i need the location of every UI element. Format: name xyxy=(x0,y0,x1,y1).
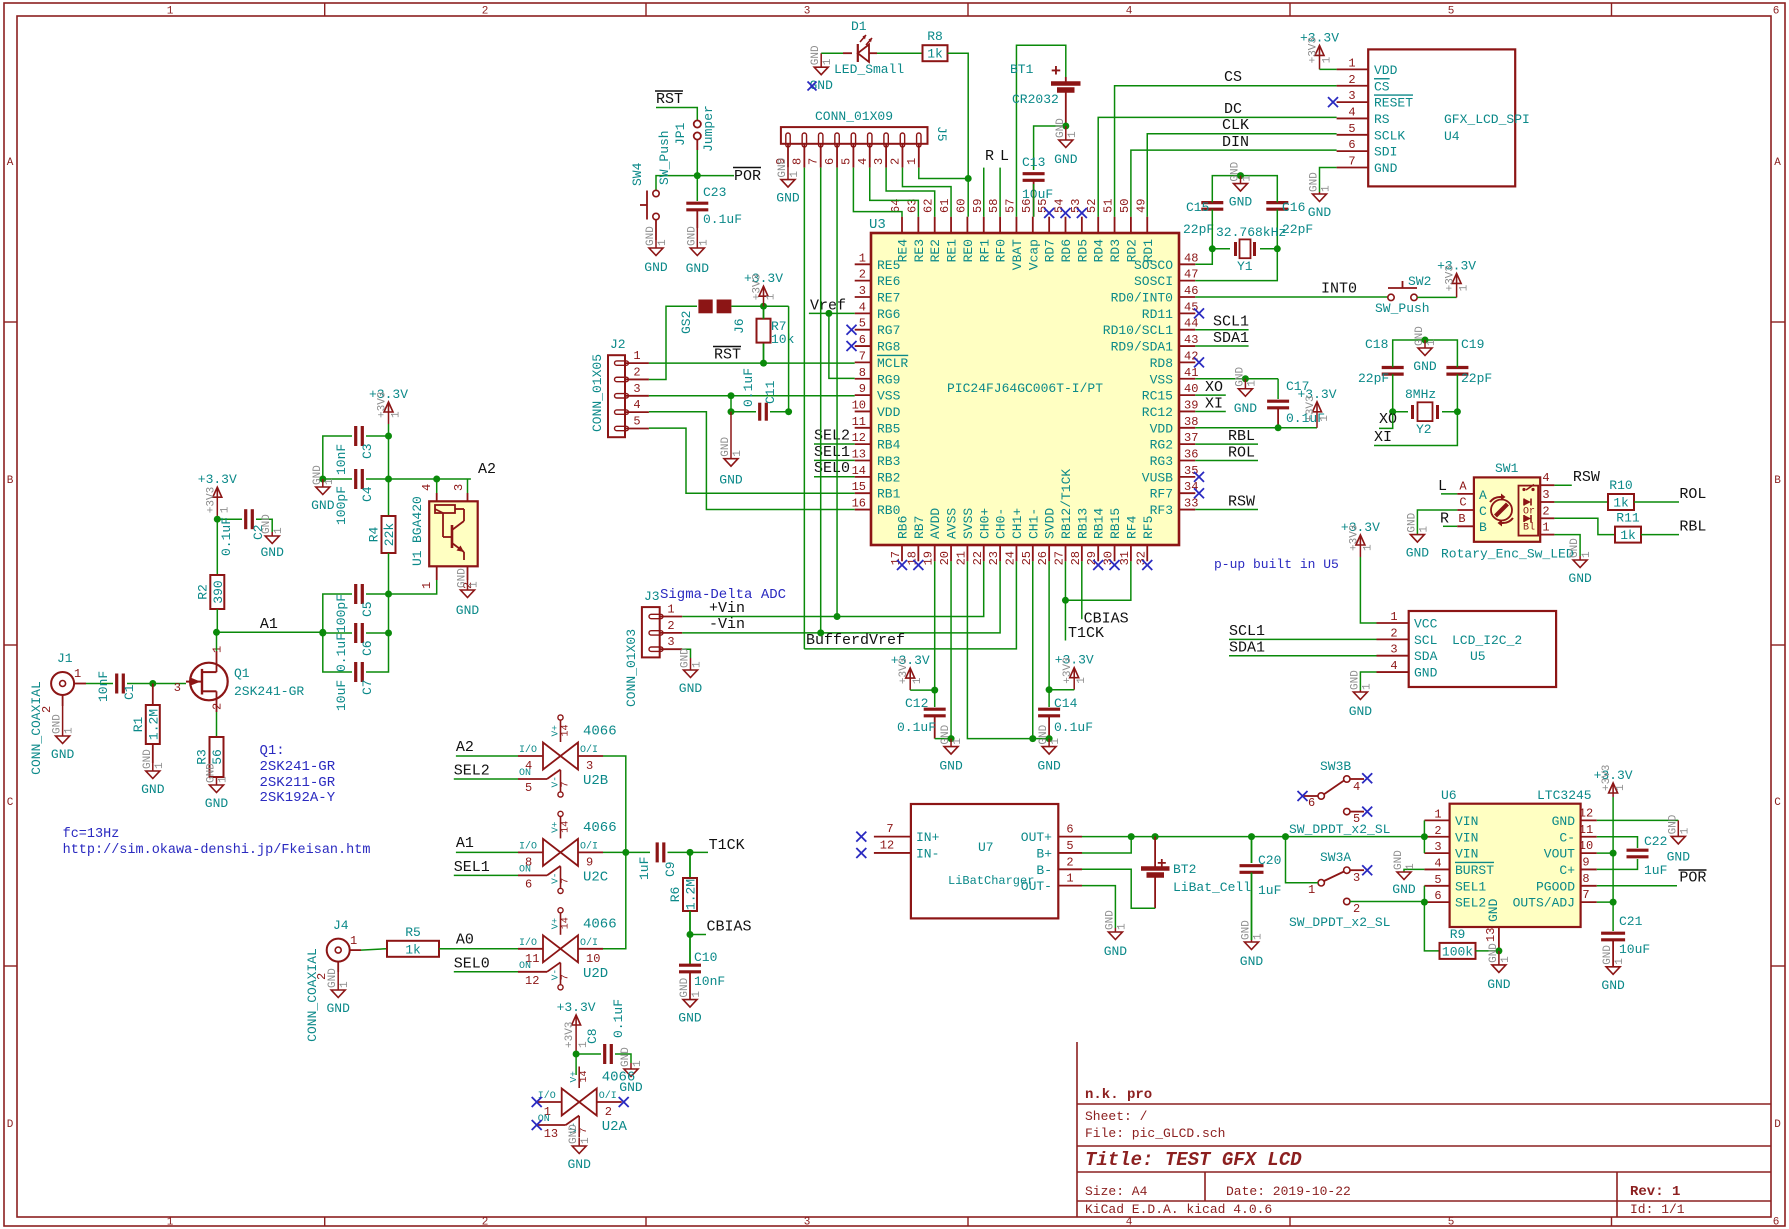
crystal Y2 8MHz xyxy=(1393,374,1458,437)
svg-text:1: 1 xyxy=(167,6,174,18)
capacitor C18 22pF xyxy=(1358,337,1404,386)
svg-text:1: 1 xyxy=(1434,807,1441,821)
svg-text:U2A: U2A xyxy=(602,1119,628,1135)
junction C11 top xyxy=(728,392,735,399)
capacitor C3 10nF xyxy=(334,426,375,475)
svg-text:57: 57 xyxy=(1003,199,1017,213)
svg-text:0.1uF: 0.1uF xyxy=(1054,720,1093,735)
svg-text:C21: C21 xyxy=(1619,914,1643,929)
wire RB12/T1CK pin27 down xyxy=(1064,561,1066,640)
svg-text:1: 1 xyxy=(905,158,919,165)
U3 PIC24FJ64GC006T-I/PT body xyxy=(869,217,1179,545)
svg-text:0.1uF: 0.1uF xyxy=(703,212,742,227)
svg-text:10nF: 10nF xyxy=(694,974,725,989)
svg-text:DC: DC xyxy=(1224,101,1242,118)
svg-text:SOSCI: SOSCI xyxy=(1134,274,1173,289)
svg-text:1: 1 xyxy=(324,478,336,485)
junction C14 gnd xyxy=(1046,735,1053,742)
junction Y2 right xyxy=(1454,408,1461,415)
svg-text:OUT-: OUT- xyxy=(1021,879,1052,894)
svg-text:+3V3: +3V3 xyxy=(1601,765,1613,791)
svg-text:VSS: VSS xyxy=(1150,372,1174,387)
svg-text:Rev: 1: Rev: 1 xyxy=(1630,1184,1680,1200)
svg-text:1: 1 xyxy=(912,677,924,684)
svg-text:11: 11 xyxy=(852,415,866,429)
svg-text:16: 16 xyxy=(852,497,866,511)
svg-text:GND: GND xyxy=(678,1011,702,1026)
svg-text:+3.3V: +3.3V xyxy=(557,1000,596,1015)
svg-text:RF7: RF7 xyxy=(1150,487,1173,502)
svg-text:SW_Push: SW_Push xyxy=(1375,301,1430,316)
svg-text:R4: R4 xyxy=(367,526,382,542)
svg-text:BURST: BURST xyxy=(1455,863,1494,878)
svg-text:C: C xyxy=(1774,797,1781,809)
svg-text:CS: CS xyxy=(1374,79,1390,94)
svg-text:CS: CS xyxy=(1224,69,1242,86)
junction C11 right xyxy=(785,408,792,415)
svg-text:XO: XO xyxy=(1205,379,1223,396)
svg-text:R1: R1 xyxy=(131,716,146,732)
svg-text:GND: GND xyxy=(1406,512,1418,532)
svg-text:2: 2 xyxy=(1434,824,1441,838)
svg-text:4: 4 xyxy=(1542,471,1549,485)
svg-text:RD8: RD8 xyxy=(1150,356,1173,371)
junction VSS gnd xyxy=(1242,375,1249,382)
svg-text:Date: 2019-10-22: Date: 2019-10-22 xyxy=(1226,1184,1351,1199)
power +3.3V above C8 xyxy=(557,1000,596,1054)
wire J1 to C1 xyxy=(86,683,113,685)
svg-text:GND: GND xyxy=(644,260,668,275)
switch SW4 SW_Push xyxy=(630,130,672,240)
wire BT2 bottom to B- xyxy=(1082,869,1155,908)
svg-text:MCLR: MCLR xyxy=(877,356,908,371)
svg-text:SDI: SDI xyxy=(1374,145,1397,160)
svg-text:37: 37 xyxy=(1184,431,1198,445)
label SEL0 at MCU xyxy=(814,460,855,477)
analog switch U2C 4066 xyxy=(518,811,617,893)
svg-text:3: 3 xyxy=(804,1217,811,1229)
svg-text:6: 6 xyxy=(823,158,837,165)
svg-text:GND: GND xyxy=(1602,945,1614,965)
svg-text:7: 7 xyxy=(579,1127,590,1133)
svg-text:GND: GND xyxy=(1240,954,1264,969)
svg-text:V+: V+ xyxy=(568,1071,579,1083)
svg-text:12: 12 xyxy=(525,974,539,988)
junction rail SW3A xyxy=(1282,833,1289,840)
ground at C2 xyxy=(260,514,285,560)
svg-text:1: 1 xyxy=(273,527,285,534)
svg-text:1: 1 xyxy=(698,239,710,246)
svg-text:GND: GND xyxy=(568,1124,580,1144)
svg-text:RD10/SCL1: RD10/SCL1 xyxy=(1103,323,1173,338)
wire U2 output trunk xyxy=(603,756,626,949)
wire AVSS pin20 down xyxy=(950,561,952,738)
svg-text:22pF: 22pF xyxy=(1461,371,1492,386)
svg-text:14: 14 xyxy=(561,917,572,929)
svg-text:1.2M: 1.2M xyxy=(684,879,699,910)
svg-text:1: 1 xyxy=(391,411,403,418)
label CS wire xyxy=(1115,69,1337,217)
ground below SW4 xyxy=(644,226,669,275)
svg-text:GND: GND xyxy=(51,747,75,762)
svg-text:1: 1 xyxy=(1542,521,1549,535)
svg-text:2SK192A-Y: 2SK192A-Y xyxy=(260,790,336,806)
svg-text:SCLK: SCLK xyxy=(1374,128,1405,143)
junction trunk at U2C out xyxy=(622,849,629,856)
analog switch U2D 4066 xyxy=(518,908,617,990)
wire BURST to gnd xyxy=(1404,869,1424,872)
svg-text:J4: J4 xyxy=(333,918,349,933)
wire A1 net xyxy=(217,631,323,633)
svg-text:C8: C8 xyxy=(585,1028,600,1044)
ground at J3 xyxy=(679,648,704,696)
svg-text:12: 12 xyxy=(852,431,866,445)
svg-text:CONN_COAXIAL: CONN_COAXIAL xyxy=(305,948,320,1042)
svg-text:4: 4 xyxy=(1348,105,1355,119)
svg-text:U2C: U2C xyxy=(583,869,608,885)
svg-text:5: 5 xyxy=(1448,6,1455,18)
label A1 at U2C xyxy=(456,835,474,852)
svg-text:LED_Small: LED_Small xyxy=(834,62,904,77)
wire A1 to U2C xyxy=(456,851,518,853)
svg-text:1: 1 xyxy=(154,762,166,769)
wire C3 left to gnd rail xyxy=(323,436,352,479)
connector J3 CONN_01X03 xyxy=(624,589,682,707)
ground below R3 xyxy=(205,763,230,811)
svg-text:40: 40 xyxy=(1184,382,1198,396)
svg-text:RC12: RC12 xyxy=(1142,405,1173,420)
wire A0 to U2D xyxy=(440,948,518,950)
label A2 at U2B xyxy=(456,739,474,756)
wire U1 pin4 riser xyxy=(436,479,438,493)
svg-text:J3: J3 xyxy=(644,589,660,604)
svg-text:RB13: RB13 xyxy=(1075,508,1090,539)
svg-text:1: 1 xyxy=(1242,175,1254,182)
svg-text:C16: C16 xyxy=(1282,200,1305,215)
svg-text:U7: U7 xyxy=(978,840,994,855)
wire RB13 pin28 down CBIAS xyxy=(1081,561,1083,619)
ground at U4 xyxy=(1308,172,1333,220)
label XI at MCU xyxy=(1195,395,1226,412)
wire vertical +3.3V to R4 xyxy=(388,424,390,516)
wire JP1 to POR/C23/SW4 xyxy=(656,150,734,190)
power +3.3V at C12 xyxy=(891,653,935,690)
label SCL1 wire at U5 xyxy=(1229,623,1377,640)
svg-text:25: 25 xyxy=(1020,551,1034,565)
svg-text:C7: C7 xyxy=(360,679,375,695)
svg-text:1: 1 xyxy=(1581,551,1593,558)
svg-text:1k: 1k xyxy=(1613,496,1629,511)
wire to C11 right xyxy=(788,306,790,412)
label XO at MCU xyxy=(1195,379,1226,396)
junction at R1 top xyxy=(149,680,156,687)
svg-text:9: 9 xyxy=(1582,855,1589,869)
capacitor C14 0.1uF xyxy=(1038,690,1093,739)
svg-text:GND: GND xyxy=(679,977,691,997)
wire J5 pin5 to RE4 xyxy=(853,168,902,217)
svg-text:Rotary_Enc_Sw_LED: Rotary_Enc_Sw_LED xyxy=(1441,547,1574,562)
svg-text:GND: GND xyxy=(810,45,822,65)
svg-text:C: C xyxy=(1479,504,1487,519)
svg-text:A1: A1 xyxy=(260,616,278,633)
svg-text:SEL2: SEL2 xyxy=(1455,896,1486,911)
junction R4 bottom xyxy=(385,591,392,598)
svg-text:SW4: SW4 xyxy=(630,162,645,186)
svg-text:19: 19 xyxy=(922,551,936,565)
svg-text:1: 1 xyxy=(1067,131,1079,138)
svg-text:J2: J2 xyxy=(610,337,626,352)
svg-text:V+: V+ xyxy=(550,918,561,930)
svg-text:50: 50 xyxy=(1118,199,1132,213)
svg-text:RF0: RF0 xyxy=(994,239,1009,262)
svg-text:27: 27 xyxy=(1053,551,1067,565)
wires cap bank left rail xyxy=(323,594,352,672)
svg-text:1: 1 xyxy=(1246,380,1258,387)
svg-text:O/I: O/I xyxy=(580,840,598,852)
svg-text:L: L xyxy=(1438,478,1447,495)
svg-text:SEL0: SEL0 xyxy=(814,460,850,477)
svg-text:O/I: O/I xyxy=(580,744,598,756)
svg-text:1: 1 xyxy=(167,1217,174,1229)
junction C11 left gnd xyxy=(728,408,735,415)
svg-text:VSS: VSS xyxy=(877,389,901,404)
svg-text:SEL2: SEL2 xyxy=(454,763,490,780)
junction OUTS rail xyxy=(1610,899,1617,906)
junction U1 pin4 xyxy=(433,476,440,483)
junction CH1- gnd xyxy=(1029,735,1036,742)
ground at C14 xyxy=(1037,724,1062,773)
svg-text:RB5: RB5 xyxy=(877,421,900,436)
svg-text:1: 1 xyxy=(420,582,434,589)
svg-text:R: R xyxy=(1440,511,1449,528)
capacitor C5 100pF xyxy=(334,584,375,633)
svg-text:10uF: 10uF xyxy=(334,680,349,711)
svg-text:GND: GND xyxy=(1309,172,1321,192)
svg-text:6: 6 xyxy=(1066,823,1073,837)
wire R11 to RBL xyxy=(1641,534,1679,536)
label POR at U6 xyxy=(1679,870,1707,887)
capacitor C1 10nF xyxy=(96,671,137,702)
label RSW at MCU xyxy=(1195,493,1258,510)
svg-text:R5: R5 xyxy=(405,925,421,940)
svg-text:SEL1: SEL1 xyxy=(814,444,850,461)
svg-text:RE4: RE4 xyxy=(896,239,911,263)
svg-text:RD9/SDA1: RD9/SDA1 xyxy=(1111,340,1174,355)
svg-text:RG2: RG2 xyxy=(1150,438,1173,453)
svg-text:A0: A0 xyxy=(456,932,474,949)
svg-text:2: 2 xyxy=(633,365,640,379)
svg-text:43: 43 xyxy=(1184,333,1198,347)
svg-text:7: 7 xyxy=(886,822,893,836)
label T1CK at MCU xyxy=(1068,625,1104,642)
svg-text:VDD: VDD xyxy=(1374,63,1398,78)
svg-text:60: 60 xyxy=(954,199,968,213)
no-connect SW3A pin3 xyxy=(1362,865,1372,875)
svg-text:XI: XI xyxy=(1374,429,1392,446)
svg-text:1: 1 xyxy=(219,506,231,513)
wire J5 pin7 to -Vin xyxy=(820,168,822,633)
svg-text:A: A xyxy=(1479,488,1487,503)
svg-text:RB6: RB6 xyxy=(896,516,911,539)
svg-text:22pF: 22pF xyxy=(1282,222,1313,237)
svg-text:PGOOD: PGOOD xyxy=(1536,879,1575,894)
svg-text:Q1: Q1 xyxy=(234,666,250,681)
label ROL at MCU xyxy=(1195,444,1258,461)
wire A2 to U2B xyxy=(456,755,518,757)
svg-text:J5: J5 xyxy=(934,126,949,142)
svg-text:CONN_01X03: CONN_01X03 xyxy=(624,629,639,707)
wire C11 left riser xyxy=(730,396,732,412)
svg-text:RB7: RB7 xyxy=(912,516,927,539)
label A1 xyxy=(260,616,278,633)
wire J2 pin4 to MCU RB0 xyxy=(649,412,855,510)
svg-text:1: 1 xyxy=(667,603,674,617)
label RST at wire xyxy=(713,347,741,364)
wire C18 C19 top rail xyxy=(1393,340,1458,367)
label SEL1 at MCU xyxy=(814,444,855,461)
junction U6 VIN pin2 xyxy=(1421,833,1428,840)
wire J2 pin1 RST to MCU MCLR xyxy=(649,362,855,364)
svg-text:JP1: JP1 xyxy=(673,122,688,146)
resistor R5 1k xyxy=(387,925,439,958)
svg-text:12: 12 xyxy=(1579,806,1593,820)
svg-text:GND: GND xyxy=(620,1047,632,1067)
svg-text:+3V3: +3V3 xyxy=(1348,525,1360,551)
note p-up built in U5 (blue) xyxy=(1214,557,1339,572)
svg-text:24: 24 xyxy=(1003,551,1017,565)
svg-text:GND: GND xyxy=(312,465,324,485)
svg-text:GND: GND xyxy=(1374,161,1398,176)
svg-text:RF5: RF5 xyxy=(1141,516,1156,539)
svg-text:1: 1 xyxy=(1308,883,1315,897)
svg-text:RE3: RE3 xyxy=(912,239,927,262)
wire U6 VIN bank xyxy=(1423,820,1425,853)
svg-text:VIN: VIN xyxy=(1455,830,1478,845)
U3 bottom pins 17-32 xyxy=(889,469,1156,566)
wire AVDD pin19 down xyxy=(934,561,936,690)
svg-text:2SK241-GR: 2SK241-GR xyxy=(260,759,336,775)
svg-text:14: 14 xyxy=(561,724,572,736)
svg-text:1: 1 xyxy=(1362,544,1374,551)
svg-text:DIN: DIN xyxy=(1222,134,1249,151)
wire R10 to ROL xyxy=(1634,501,1679,503)
svg-text:CLK: CLK xyxy=(1222,117,1249,134)
ground at J5 pin9 xyxy=(776,157,801,205)
svg-text:28: 28 xyxy=(1069,551,1083,565)
wire PGOOD to POR xyxy=(1597,885,1677,887)
ground at C8 xyxy=(619,1047,644,1095)
svg-text:1: 1 xyxy=(1390,610,1397,624)
svg-text:100pF: 100pF xyxy=(334,486,349,525)
svg-text:RB14: RB14 xyxy=(1092,508,1107,539)
ground at J1 xyxy=(51,706,76,762)
svg-text:22pF: 22pF xyxy=(1183,222,1214,237)
svg-text:11: 11 xyxy=(1579,823,1593,837)
module U7 LiBatCharger xyxy=(874,804,1082,918)
svg-text:RE2: RE2 xyxy=(928,239,943,262)
svg-text:GND: GND xyxy=(1406,546,1430,561)
svg-text:58: 58 xyxy=(987,199,1001,213)
crystal Y1 32.768kHz xyxy=(1212,209,1286,274)
svg-text:GND: GND xyxy=(260,545,284,560)
jumper JP1 xyxy=(673,105,716,152)
capacitor C20 1uF xyxy=(1240,837,1282,940)
svg-text:RD1: RD1 xyxy=(1141,239,1156,263)
capacitor C21 10uF xyxy=(1601,914,1650,967)
svg-text:RD3: RD3 xyxy=(1108,239,1123,262)
svg-text:6: 6 xyxy=(525,877,532,891)
svg-text:Y1: Y1 xyxy=(1237,259,1253,274)
label RBL xyxy=(1679,518,1706,535)
label RBL at MCU xyxy=(1195,428,1258,445)
resistor R11 1k xyxy=(1615,511,1641,544)
junction below BT1 xyxy=(1062,123,1069,130)
wire SVSS pin21 down to gnd rail xyxy=(967,561,1049,738)
analog switch U2A 4066 xyxy=(537,1067,636,1142)
svg-text:CBIAS: CBIAS xyxy=(1084,611,1129,628)
amplifier U1 BGA420 xyxy=(410,484,478,589)
svg-text:RB3: RB3 xyxy=(877,454,900,469)
svg-text:1: 1 xyxy=(350,934,357,948)
label SEL2 at U2B xyxy=(454,763,490,780)
wire GS2 to +3.3V junction xyxy=(731,305,788,307)
module U4 GFX_LCD_SPI xyxy=(1337,49,1530,186)
svg-text:GND: GND xyxy=(457,568,469,588)
svg-text:SDA: SDA xyxy=(1414,649,1438,664)
ground below R1 xyxy=(141,749,166,797)
svg-text:I/O: I/O xyxy=(538,1090,556,1102)
svg-text:GND: GND xyxy=(686,261,710,276)
label A0 at U2D xyxy=(456,932,474,949)
svg-text:46: 46 xyxy=(1184,284,1198,298)
svg-text:3: 3 xyxy=(1390,643,1397,657)
svg-text:C23: C23 xyxy=(703,185,726,200)
wire RF0 xyxy=(999,168,1001,217)
svg-text:VIN: VIN xyxy=(1455,847,1478,862)
no-connects U2A xyxy=(532,1097,629,1130)
power +3.3V at R7 xyxy=(744,271,783,306)
svg-text:R6: R6 xyxy=(668,887,683,903)
junction C12 top xyxy=(931,687,938,694)
svg-text:39: 39 xyxy=(1184,398,1198,412)
svg-text:ON: ON xyxy=(519,961,531,972)
wire SEL1 SEL2 R9 trunk xyxy=(1424,886,1440,951)
svg-text:7: 7 xyxy=(1348,155,1355,169)
wire +3.3V rail down U6 xyxy=(1612,797,1614,931)
svg-text:GND: GND xyxy=(1349,704,1373,719)
label INT0 wire xyxy=(1195,281,1387,298)
svg-text:1.2M: 1.2M xyxy=(146,709,161,740)
svg-text:2: 2 xyxy=(211,703,225,710)
switch SW3B xyxy=(1304,759,1364,826)
svg-text:RST: RST xyxy=(714,347,741,364)
svg-text:52: 52 xyxy=(1085,199,1099,213)
wire VOUT pin10 xyxy=(1597,852,1613,854)
svg-text:ON: ON xyxy=(519,864,531,875)
svg-text:U2D: U2D xyxy=(583,966,608,982)
svg-text:22k: 22k xyxy=(382,523,397,547)
label SEL0 at U2D xyxy=(454,956,490,973)
svg-text:GND: GND xyxy=(1552,814,1576,829)
svg-text:1: 1 xyxy=(218,776,230,783)
svg-text:RB4: RB4 xyxy=(877,438,901,453)
svg-text:GND: GND xyxy=(456,603,480,618)
svg-text:O/I: O/I xyxy=(580,937,598,949)
ground at C21 xyxy=(1601,945,1626,993)
svg-text:14: 14 xyxy=(579,1070,590,1082)
svg-text:RG3: RG3 xyxy=(1150,454,1173,469)
svg-text:RBL: RBL xyxy=(1228,428,1255,445)
